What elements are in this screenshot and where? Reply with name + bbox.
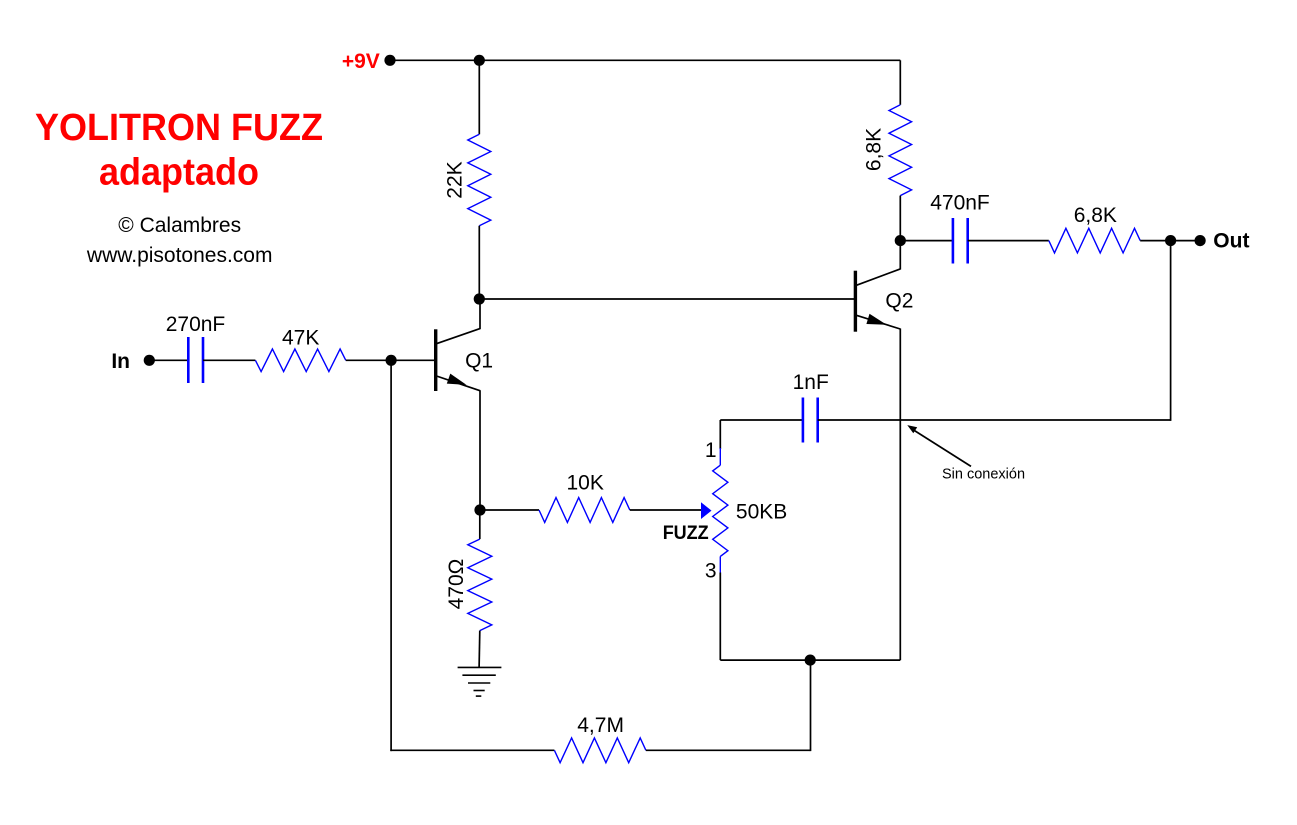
- svg-text:www.pisotones.com: www.pisotones.com: [86, 244, 273, 267]
- wire bottom left: [390, 749, 554, 751]
- junction out node: [1165, 235, 1176, 246]
- resistor 4,7M: [554, 738, 646, 763]
- svg-text:6,8K: 6,8K: [1074, 204, 1117, 227]
- resistor 470R: [468, 510, 492, 667]
- svg-text:Sin conexión: Sin conexión: [942, 467, 1025, 483]
- wire R out to node: [1140, 240, 1170, 242]
- svg-text:Q2: Q2: [885, 290, 913, 313]
- resistor 6,8K vertical: [889, 60, 912, 240]
- svg-text:1: 1: [705, 439, 717, 462]
- wire base run to Q2: [479, 298, 856, 300]
- wire C3 to out riser: [818, 419, 1171, 421]
- resistor 47K: [255, 349, 345, 372]
- resistor 6,8K horizontal: [1049, 228, 1140, 253]
- svg-text:470nF: 470nF: [930, 192, 990, 215]
- wire out riser: [1170, 241, 1172, 421]
- terminal Out dot: [1195, 235, 1206, 246]
- svg-text:6,8K: 6,8K: [863, 128, 886, 171]
- wire base lead Q1: [391, 359, 435, 361]
- svg-text:1nF: 1nF: [793, 371, 829, 394]
- wire 47K to base node: [346, 359, 391, 361]
- svg-text:10K: 10K: [567, 472, 604, 495]
- resistor 22K: [468, 60, 491, 299]
- terminal +9V: [384, 55, 395, 66]
- ground: [458, 667, 502, 696]
- svg-text:470Ω: 470Ω: [445, 559, 468, 610]
- capacitor 470nF: [953, 218, 968, 264]
- capacitor 270nF: [188, 337, 203, 383]
- svg-text:In: In: [111, 350, 130, 373]
- transistor Q2: [855, 241, 900, 660]
- svg-text:270nF: 270nF: [166, 313, 226, 336]
- junction bottom row/feedback: [805, 655, 816, 666]
- svg-text:+9V: +9V: [342, 50, 380, 73]
- wire pot bottom row: [720, 659, 900, 661]
- potentiometer 50KB: [713, 420, 728, 660]
- svg-text:4,7M: 4,7M: [577, 714, 624, 737]
- wire pot top to C3: [720, 419, 803, 421]
- svg-text:47K: 47K: [282, 327, 319, 350]
- wire emitter node to 10K: [480, 509, 539, 511]
- wiper arrow: [701, 502, 712, 519]
- junction base node: [386, 355, 397, 366]
- junction rail/22K: [474, 55, 485, 66]
- wire feedback left vertical: [390, 360, 392, 751]
- wire 10K to wiper: [630, 509, 701, 511]
- wire collector node to C2: [900, 240, 953, 242]
- svg-text:Q1: Q1: [465, 350, 493, 373]
- terminal In dot: [144, 355, 155, 366]
- annotation Sin conexion arrow: [907, 425, 971, 466]
- svg-text:YOLITRON FUZZ: YOLITRON FUZZ: [35, 107, 323, 149]
- svg-text:FUZZ: FUZZ: [663, 523, 709, 544]
- resistor 10K: [539, 498, 630, 523]
- svg-text:22K: 22K: [443, 161, 466, 198]
- svg-text:adaptado: adaptado: [99, 151, 259, 193]
- wire to Out terminal: [1171, 240, 1201, 242]
- svg-text:50KB: 50KB: [736, 501, 787, 524]
- junction 22K/Q1 collector/Q2 base: [474, 293, 485, 304]
- svg-text:Out: Out: [1213, 230, 1249, 253]
- svg-text:© Calambres: © Calambres: [118, 214, 241, 237]
- capacitor 1nF: [803, 398, 818, 443]
- wire In to C1: [149, 359, 188, 361]
- wire top rail: [390, 59, 900, 61]
- junction collector node: [895, 235, 906, 246]
- svg-text:3: 3: [705, 559, 717, 582]
- wire feedback riser: [810, 660, 812, 751]
- wire C1 to 47K: [203, 359, 255, 361]
- wire bottom right: [646, 749, 811, 751]
- wire C2 to R out: [968, 240, 1049, 242]
- junction Q1 emitter node: [474, 504, 485, 515]
- transistor Q1: [435, 299, 480, 510]
